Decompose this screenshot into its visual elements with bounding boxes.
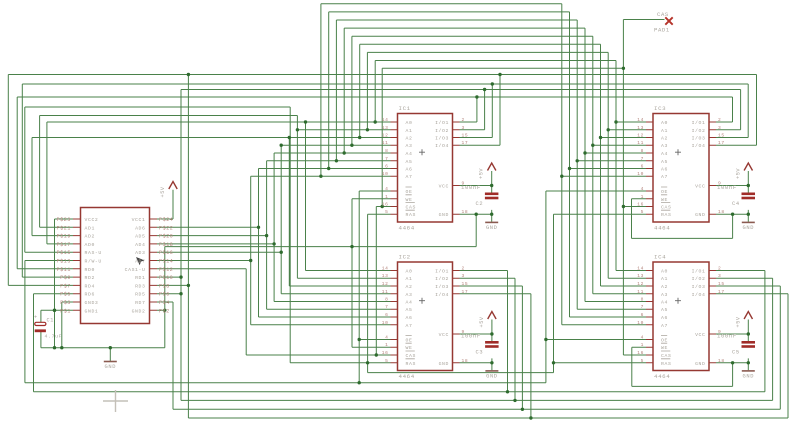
svg-text:P$23: P$23	[57, 217, 71, 223]
svg-text:C5: C5	[732, 350, 740, 356]
svg-text:VCC: VCC	[439, 332, 449, 338]
svg-text:GND: GND	[439, 361, 449, 367]
svg-text:P$21: P$21	[57, 225, 71, 231]
svg-text:AD7: AD7	[135, 259, 145, 265]
svg-text:I/O3: I/O3	[692, 136, 706, 142]
svg-text:P$7: P$7	[60, 283, 71, 289]
svg-text:RAS: RAS	[661, 361, 671, 367]
svg-text:5: 5	[641, 358, 644, 364]
svg-text:P$4: P$4	[159, 300, 170, 306]
svg-text:AD1: AD1	[85, 225, 95, 231]
svg-text:P$13: P$13	[57, 259, 71, 265]
svg-text:RAS: RAS	[661, 212, 671, 218]
svg-text:A5: A5	[406, 159, 413, 165]
svg-text:17: 17	[462, 140, 469, 146]
svg-text:RAS-U: RAS-U	[85, 250, 102, 256]
svg-text:A2: A2	[406, 284, 413, 290]
svg-text:A6: A6	[406, 315, 413, 321]
svg-text:A1: A1	[661, 128, 668, 134]
svg-text:16: 16	[637, 202, 644, 208]
svg-text:8: 8	[641, 297, 644, 303]
svg-text:1: 1	[641, 342, 644, 348]
svg-text:P$9: P$9	[60, 275, 71, 281]
svg-text:I/O4: I/O4	[435, 143, 449, 149]
svg-text:+5V: +5V	[479, 168, 485, 179]
svg-text:4: 4	[385, 186, 388, 192]
svg-text:I/O1: I/O1	[435, 120, 449, 126]
svg-text:13: 13	[382, 125, 389, 131]
svg-text:I/O2: I/O2	[692, 276, 706, 282]
svg-text:GND2: GND2	[132, 308, 146, 314]
svg-text:12: 12	[637, 281, 644, 287]
svg-text:P$14: P$14	[159, 259, 173, 265]
svg-text:12: 12	[637, 133, 644, 139]
svg-text:A1: A1	[406, 128, 413, 134]
svg-text:GND: GND	[695, 361, 705, 367]
svg-text:6: 6	[385, 312, 388, 318]
svg-text:P$17: P$17	[57, 242, 71, 248]
svg-text:VCC: VCC	[695, 184, 705, 190]
svg-text:5: 5	[385, 209, 388, 215]
svg-text:P$22: P$22	[159, 225, 173, 231]
svg-text:+5V: +5V	[735, 168, 741, 179]
svg-text:13: 13	[637, 125, 644, 131]
svg-text:CAS1-U: CAS1-U	[125, 267, 146, 273]
svg-text:A0: A0	[661, 120, 668, 126]
svg-text:I/O4: I/O4	[692, 143, 706, 149]
svg-text:VCC: VCC	[439, 184, 449, 190]
svg-text:A7: A7	[661, 323, 668, 329]
svg-text:PAD1: PAD1	[654, 27, 670, 34]
svg-text:A6: A6	[661, 167, 668, 173]
svg-text:8: 8	[385, 297, 388, 303]
svg-text:11: 11	[382, 289, 389, 295]
svg-text:I/O2: I/O2	[435, 276, 449, 282]
svg-text:2: 2	[462, 117, 465, 123]
svg-text:5: 5	[385, 358, 388, 364]
svg-text:VCC2: VCC2	[85, 217, 99, 223]
svg-text:A2: A2	[406, 136, 413, 142]
svg-text:4464: 4464	[654, 373, 670, 380]
svg-text:A3: A3	[406, 143, 413, 149]
svg-text:A7: A7	[406, 323, 413, 329]
svg-text:8: 8	[641, 148, 644, 154]
svg-text:10: 10	[382, 320, 389, 326]
svg-text:A7: A7	[661, 174, 668, 180]
svg-text:7: 7	[641, 156, 644, 162]
svg-text:18: 18	[462, 209, 469, 215]
svg-text:2: 2	[462, 266, 465, 272]
svg-text:10: 10	[637, 171, 644, 177]
svg-text:3: 3	[462, 273, 465, 279]
svg-text:I/O3: I/O3	[435, 284, 449, 290]
svg-text:A6: A6	[661, 315, 668, 321]
svg-text:OE: OE	[406, 338, 413, 344]
svg-text:4: 4	[641, 186, 644, 192]
svg-text:6: 6	[385, 164, 388, 170]
svg-text:12: 12	[382, 133, 389, 139]
svg-text:AD2: AD2	[85, 234, 95, 240]
svg-text:RD7: RD7	[135, 300, 145, 306]
svg-text:16: 16	[382, 202, 389, 208]
svg-text:14: 14	[382, 117, 389, 123]
svg-text:3: 3	[462, 125, 465, 131]
svg-text:P$24: P$24	[159, 217, 173, 223]
svg-text:18: 18	[718, 358, 725, 364]
svg-text:7: 7	[385, 304, 388, 310]
svg-text:+: +	[34, 315, 38, 321]
svg-text:A3: A3	[661, 292, 668, 298]
svg-text:+5V: +5V	[479, 316, 485, 327]
svg-text:4: 4	[385, 335, 388, 341]
svg-text:RD6: RD6	[85, 292, 95, 298]
svg-text:GND: GND	[486, 225, 498, 231]
svg-text:CAS: CAS	[406, 353, 416, 359]
svg-text:P$6: P$6	[159, 292, 170, 298]
svg-text:11: 11	[382, 140, 389, 146]
svg-text:A1: A1	[661, 276, 668, 282]
svg-text:OE: OE	[406, 189, 413, 195]
svg-text:14: 14	[382, 266, 389, 272]
svg-text:WE: WE	[661, 197, 668, 203]
svg-text:10: 10	[382, 171, 389, 177]
svg-text:OE: OE	[661, 338, 668, 344]
svg-text:A5: A5	[406, 307, 413, 313]
svg-text:6: 6	[641, 164, 644, 170]
svg-text:IC1: IC1	[399, 105, 411, 112]
svg-text:A5: A5	[661, 159, 668, 165]
svg-text:IC3: IC3	[654, 105, 666, 112]
svg-text:WE: WE	[406, 197, 413, 203]
svg-text:15: 15	[462, 133, 469, 139]
svg-text:4464: 4464	[399, 373, 415, 380]
svg-text:16: 16	[382, 350, 389, 356]
svg-text:I/O4: I/O4	[435, 292, 449, 298]
svg-text:AD0: AD0	[85, 242, 95, 248]
svg-text:18: 18	[462, 358, 469, 364]
svg-text:1: 1	[385, 194, 388, 200]
svg-text:P$2: P$2	[159, 308, 170, 314]
svg-text:AD6: AD6	[135, 225, 145, 231]
svg-text:C2: C2	[476, 201, 484, 207]
svg-text:RD3: RD3	[135, 283, 145, 289]
svg-text:P$16: P$16	[159, 250, 173, 256]
svg-text:100nF: 100nF	[717, 333, 737, 340]
svg-text:4: 4	[641, 335, 644, 341]
svg-text:GND3: GND3	[85, 300, 99, 306]
svg-text:14: 14	[637, 266, 644, 272]
svg-text:I/O2: I/O2	[692, 128, 706, 134]
svg-text:I/O1: I/O1	[692, 269, 706, 275]
svg-text:17: 17	[462, 289, 469, 295]
svg-text:P$5: P$5	[60, 292, 71, 298]
svg-text:A0: A0	[406, 269, 413, 275]
svg-text:14: 14	[637, 117, 644, 123]
svg-text:I/O3: I/O3	[435, 136, 449, 142]
svg-text:10: 10	[637, 320, 644, 326]
svg-text:C3: C3	[476, 350, 484, 356]
svg-text:VCC1: VCC1	[132, 217, 146, 223]
svg-text:VCC: VCC	[695, 332, 705, 338]
svg-text:A3: A3	[661, 143, 668, 149]
svg-text:13: 13	[637, 273, 644, 279]
svg-text:WE: WE	[406, 345, 413, 351]
svg-text:+5V: +5V	[160, 186, 166, 197]
svg-text:15: 15	[462, 281, 469, 287]
svg-text:GND1: GND1	[85, 308, 99, 314]
svg-text:RD2: RD2	[85, 275, 95, 281]
svg-text:RD0: RD0	[85, 267, 95, 273]
svg-text:R/W-U: R/W-U	[85, 259, 102, 265]
svg-text:4.7uF: 4.7uF	[45, 334, 63, 340]
svg-text:IC4: IC4	[654, 254, 666, 261]
svg-text:A4: A4	[406, 300, 413, 306]
svg-text:A7: A7	[406, 174, 413, 180]
svg-text:+5V: +5V	[735, 316, 741, 327]
svg-text:P$3: P$3	[60, 300, 71, 306]
svg-text:A4: A4	[661, 151, 668, 157]
svg-text:RAS: RAS	[406, 361, 416, 367]
svg-text:P$1: P$1	[60, 308, 71, 314]
svg-text:8: 8	[385, 148, 388, 154]
svg-text:3: 3	[718, 125, 721, 131]
svg-text:CAS: CAS	[406, 205, 416, 211]
svg-text:CAS: CAS	[661, 353, 671, 359]
svg-text:12: 12	[382, 281, 389, 287]
svg-text:P$11: P$11	[57, 267, 71, 273]
svg-text:I/O1: I/O1	[435, 269, 449, 275]
svg-text:P$8: P$8	[159, 283, 170, 289]
svg-text:GND: GND	[486, 373, 498, 379]
svg-text:3: 3	[718, 273, 721, 279]
svg-text:CAS: CAS	[661, 205, 671, 211]
svg-text:A0: A0	[661, 269, 668, 275]
svg-text:AD5: AD5	[135, 234, 145, 240]
svg-text:2: 2	[718, 117, 721, 123]
svg-text:A6: A6	[406, 167, 413, 173]
svg-text:C1: C1	[47, 318, 54, 324]
svg-text:16: 16	[637, 350, 644, 356]
svg-text:A4: A4	[661, 300, 668, 306]
svg-text:100nF: 100nF	[461, 333, 481, 340]
svg-text:100nF: 100nF	[717, 184, 737, 191]
svg-text:4464: 4464	[654, 225, 670, 232]
svg-text:17: 17	[718, 289, 725, 295]
svg-text:1: 1	[385, 342, 388, 348]
svg-text:RD5: RD5	[135, 292, 145, 298]
svg-text:GND: GND	[439, 212, 449, 218]
svg-text:18: 18	[718, 209, 725, 215]
svg-text:C4: C4	[732, 201, 740, 207]
svg-text:P$15: P$15	[57, 250, 71, 256]
svg-text:7: 7	[385, 156, 388, 162]
svg-text:11: 11	[637, 289, 644, 295]
svg-text:P$12: P$12	[159, 267, 173, 273]
svg-text:A5: A5	[661, 307, 668, 313]
svg-text:I/O2: I/O2	[435, 128, 449, 134]
svg-text:GND: GND	[743, 225, 755, 231]
svg-text:2: 2	[718, 266, 721, 272]
svg-text:GND: GND	[105, 364, 117, 370]
svg-text:1: 1	[641, 194, 644, 200]
svg-text:I/O1: I/O1	[692, 120, 706, 126]
svg-text:I/O3: I/O3	[692, 284, 706, 290]
svg-text:11: 11	[637, 140, 644, 146]
svg-text:AD4: AD4	[135, 242, 145, 248]
svg-text:A2: A2	[661, 284, 668, 290]
svg-text:A3: A3	[406, 292, 413, 298]
svg-text:P$18: P$18	[159, 242, 173, 248]
svg-text:RAS: RAS	[406, 212, 416, 218]
svg-text:GND: GND	[743, 373, 755, 379]
svg-text:CAS: CAS	[657, 11, 669, 18]
svg-text:WE: WE	[661, 345, 668, 351]
svg-text:IC2: IC2	[399, 254, 411, 261]
svg-text:17: 17	[718, 140, 725, 146]
svg-text:15: 15	[718, 281, 725, 287]
svg-text:A1: A1	[406, 276, 413, 282]
svg-text:13: 13	[382, 273, 389, 279]
svg-text:RD4: RD4	[85, 283, 95, 289]
svg-text:5: 5	[641, 209, 644, 215]
svg-text:7: 7	[641, 304, 644, 310]
svg-text:I/O4: I/O4	[692, 292, 706, 298]
svg-text:P$19: P$19	[57, 234, 71, 240]
svg-text:A4: A4	[406, 151, 413, 157]
svg-text:A0: A0	[406, 120, 413, 126]
svg-text:A2: A2	[661, 136, 668, 142]
svg-text:AD3: AD3	[135, 250, 145, 256]
svg-text:6: 6	[641, 312, 644, 318]
svg-text:OE: OE	[661, 189, 668, 195]
svg-text:15: 15	[718, 133, 725, 139]
svg-text:4464: 4464	[399, 225, 415, 232]
svg-text:P$10: P$10	[159, 275, 173, 281]
svg-text:100nF: 100nF	[461, 184, 481, 191]
svg-text:RD1: RD1	[135, 275, 145, 281]
svg-text:P$20: P$20	[159, 234, 173, 240]
svg-text:GND: GND	[695, 212, 705, 218]
